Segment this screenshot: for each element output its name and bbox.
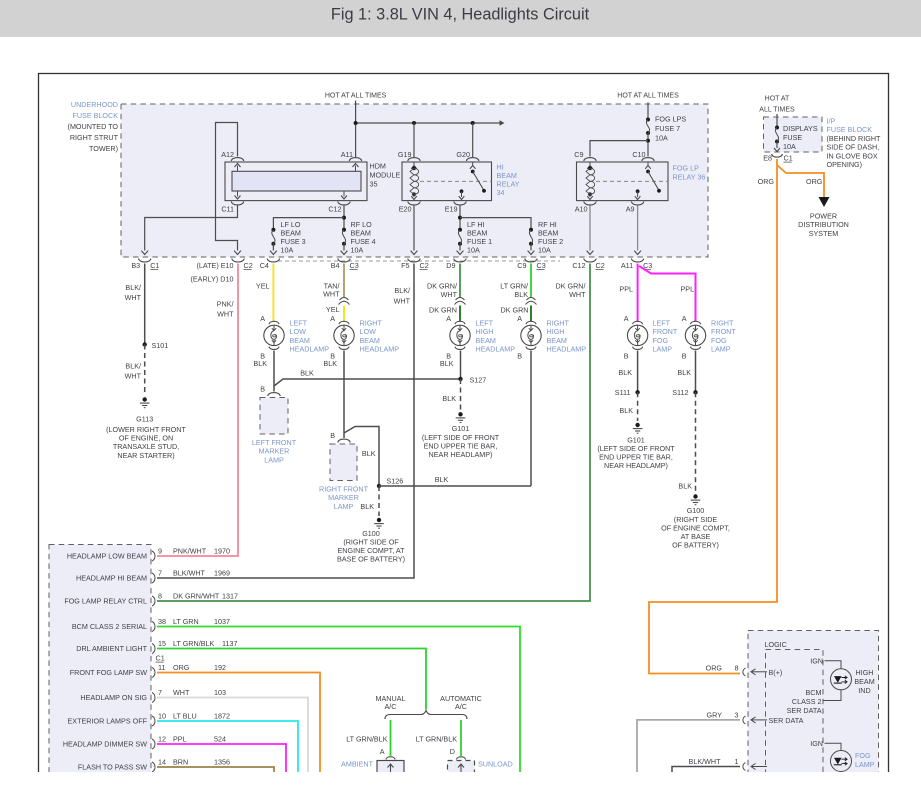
wire LT GRN/BLK to sunload sensor <box>460 720 462 756</box>
svg-text:ORG: ORG <box>758 177 775 186</box>
svg-text:GRY: GRY <box>707 711 723 720</box>
wire PNK/WHT from E10/C2 to BCM pin 9 <box>157 264 238 557</box>
logic inner box <box>766 650 824 791</box>
svg-text:HOT AT ALL TIMES: HOT AT ALL TIMES <box>325 93 387 100</box>
svg-text:11: 11 <box>158 663 165 672</box>
wire: A10 to C12/C2 <box>589 206 591 251</box>
svg-text:ORG: ORG <box>806 177 823 186</box>
connector at x=590 <box>584 259 596 262</box>
ground G101 (left headlamp) <box>458 412 462 416</box>
svg-text:BLK: BLK <box>253 359 267 368</box>
svg-text:B: B <box>682 352 687 361</box>
svg-text:RIGHT: RIGHT <box>547 319 570 328</box>
svg-text:DK GRN: DK GRN <box>501 306 529 315</box>
connector at x=273.4 <box>267 259 279 262</box>
harness dashed line <box>278 260 560 262</box>
svg-text:A: A <box>260 314 265 323</box>
svg-text:PNK/: PNK/ <box>217 300 234 309</box>
svg-text:FUSE 7: FUSE 7 <box>655 124 680 133</box>
underhood fuse block box <box>121 104 708 257</box>
svg-text:ALL TIMES: ALL TIMES <box>759 107 795 114</box>
svg-text:BLK/WHT: BLK/WHT <box>689 757 722 766</box>
svg-text:10A: 10A <box>655 134 668 143</box>
svg-text:IGN: IGN <box>810 657 823 666</box>
svg-text:FOG LP: FOG LP <box>673 164 700 173</box>
splice S127 <box>458 377 462 381</box>
svg-text:OPENING): OPENING) <box>827 160 863 169</box>
ground G100 (fog) <box>693 494 697 498</box>
connector at x=414 <box>408 259 420 262</box>
wire DK GRN/WHT from C12/C2 to BCM pin 8 <box>157 264 590 602</box>
relay 34 switch <box>472 162 474 166</box>
svg-text:LAMP: LAMP <box>264 455 284 464</box>
svg-text:BLK: BLK <box>619 406 633 415</box>
svg-text:IN GLOVE BOX: IN GLOVE BOX <box>827 151 878 160</box>
svg-text:BLK: BLK <box>323 359 337 368</box>
wire YEL to right low beam lamp <box>343 306 345 322</box>
svg-text:RIGHT: RIGHT <box>360 319 383 328</box>
svg-text:(LATE) E10: (LATE) E10 <box>196 261 233 270</box>
svg-text:A: A <box>446 314 451 323</box>
svg-text:UNDERHOOD: UNDERHOOD <box>71 100 118 109</box>
svg-text:DK GRN: DK GRN <box>429 306 457 315</box>
svg-text:G100: G100 <box>687 506 705 515</box>
svg-text:WHT: WHT <box>394 297 411 306</box>
svg-text:RELAY 36: RELAY 36 <box>673 173 706 182</box>
svg-text:IND: IND <box>858 686 870 695</box>
wire DK GRN to left high beam lamp <box>459 306 461 322</box>
wire BLK S126 bus to right high beam B <box>379 485 531 487</box>
svg-text:C3: C3 <box>537 261 546 270</box>
svg-text:A: A <box>380 747 385 756</box>
svg-text:S127: S127 <box>470 376 487 385</box>
svg-text:1037: 1037 <box>214 617 230 626</box>
svg-text:LEFT: LEFT <box>653 319 671 328</box>
wire BLK/WHT 1 <box>672 767 740 773</box>
svg-text:LEFT: LEFT <box>476 319 494 328</box>
connector at x=460 <box>454 259 466 262</box>
svg-text:14: 14 <box>158 758 166 767</box>
svg-text:LT GRN/BLK: LT GRN/BLK <box>173 639 214 648</box>
svg-text:WHT: WHT <box>173 688 190 697</box>
svg-text:OF BATTERY): OF BATTERY) <box>672 541 719 550</box>
svg-text:BLK: BLK <box>435 475 449 484</box>
svg-text:1356: 1356 <box>214 758 230 767</box>
wire BLK left low beam B to marker lamp <box>273 351 275 392</box>
svg-text:BEAM: BEAM <box>360 336 380 345</box>
splice S111 <box>635 390 639 394</box>
wire feed <box>776 114 778 128</box>
svg-text:524: 524 <box>214 735 226 744</box>
svg-text:PPL: PPL <box>619 285 633 294</box>
ground G100 (marker) <box>377 518 381 522</box>
HDM module 35 <box>225 162 367 201</box>
wire: E20 to F5 <box>413 206 415 251</box>
svg-text:BEAM: BEAM <box>290 336 310 345</box>
connector at x=637.6 <box>631 259 643 262</box>
svg-text:35: 35 <box>370 180 378 189</box>
svg-text:B: B <box>260 385 265 394</box>
svg-text:WHT: WHT <box>441 290 458 299</box>
svg-text:BEAM: BEAM <box>476 336 496 345</box>
svg-text:8: 8 <box>158 592 162 601</box>
wire YEL from C4 to left low beam lamp <box>272 264 274 322</box>
svg-text:S111: S111 <box>615 388 631 397</box>
logic outer box <box>748 631 879 791</box>
svg-text:C1: C1 <box>156 654 165 663</box>
svg-text:ORG: ORG <box>706 664 723 673</box>
title bar <box>0 0 921 37</box>
wire DK GRN to right high beam lamp <box>530 306 532 322</box>
svg-text:HEADLAMP: HEADLAMP <box>360 345 400 354</box>
svg-text:POWER: POWER <box>810 212 837 221</box>
wire GRY <box>637 720 740 772</box>
wire: feed to A11 and bus <box>355 101 357 158</box>
svg-text:(EARLY) D10: (EARLY) D10 <box>190 275 233 284</box>
svg-text:SIDE OF DASH,: SIDE OF DASH, <box>827 143 880 152</box>
svg-text:A: A <box>624 314 629 323</box>
svg-text:10A: 10A <box>467 246 480 255</box>
wire: bus drop to G19 <box>413 123 415 157</box>
svg-text:LOGIC: LOGIC <box>765 640 787 649</box>
wire DK GRN/WHT from D9 <box>459 264 461 298</box>
connector at x=144.7 <box>139 259 151 262</box>
svg-text:BLK: BLK <box>677 368 691 377</box>
svg-text:C9: C9 <box>517 261 526 270</box>
wire LT GRN/BLK 1137 <box>157 649 426 710</box>
wire BRN 1356 <box>157 767 274 772</box>
svg-text:C2: C2 <box>596 261 605 270</box>
svg-text:A11: A11 <box>341 150 353 159</box>
relay 36 coil <box>589 162 591 166</box>
svg-text:SER DATA: SER DATA <box>787 706 822 715</box>
svg-text:LAMP: LAMP <box>855 760 875 769</box>
svg-text:C12: C12 <box>572 261 585 270</box>
svg-text:1872: 1872 <box>214 712 230 721</box>
wire BLK/WHT from F5/C2 to BCM pin 7 <box>157 264 414 579</box>
svg-text:BLK: BLK <box>514 290 528 299</box>
svg-text:103: 103 <box>214 688 226 697</box>
svg-text:ORG: ORG <box>173 663 190 672</box>
svg-text:HIGH: HIGH <box>476 327 494 336</box>
wire PPL 524 <box>157 744 286 772</box>
svg-text:1137: 1137 <box>222 639 237 648</box>
svg-text:YEL: YEL <box>256 282 270 291</box>
svg-text:BRN: BRN <box>173 758 188 767</box>
wire: A9 to A11/C3 <box>637 206 639 251</box>
svg-text:FUSE BLOCK: FUSE BLOCK <box>72 111 118 120</box>
svg-text:LOW: LOW <box>360 327 377 336</box>
svg-text:DRL AMBIENT LIGHT: DRL AMBIENT LIGHT <box>76 644 147 653</box>
svg-text:FUSE BLOCK: FUSE BLOCK <box>827 125 873 134</box>
svg-text:S126: S126 <box>387 477 404 486</box>
lamp: left front marker lamp <box>268 393 280 396</box>
svg-text:HEADLAMP: HEADLAMP <box>290 345 330 354</box>
lamp: right front marker lamp <box>338 439 350 442</box>
svg-text:FOG: FOG <box>653 336 669 345</box>
svg-text:A: A <box>682 314 687 323</box>
relay 36 switch <box>647 162 649 166</box>
svg-text:LAMP: LAMP <box>653 345 673 354</box>
svg-text:38: 38 <box>158 617 166 626</box>
BCM box <box>49 545 151 785</box>
svg-text:A11: A11 <box>621 261 633 270</box>
wire BLK right high beam B to S126 bus <box>530 351 532 487</box>
svg-text:BLK/: BLK/ <box>125 362 141 371</box>
svg-text:C2: C2 <box>244 261 253 270</box>
fuse: FOG LPS FUSE 7 10A <box>646 118 650 122</box>
svg-text:OF ENGINE, ON: OF ENGINE, ON <box>119 434 173 443</box>
wire: branch to C9 <box>590 141 648 157</box>
svg-text:C9: C9 <box>574 150 583 159</box>
wire to ground G100 <box>378 486 380 516</box>
svg-text:C12: C12 <box>328 205 341 214</box>
svg-text:S112: S112 <box>672 388 688 397</box>
svg-text:BCM CLASS 2 SERIAL: BCM CLASS 2 SERIAL <box>72 622 147 631</box>
svg-text:BLK: BLK <box>360 502 374 511</box>
svg-text:SER DATA: SER DATA <box>769 716 804 725</box>
splice S112 <box>693 390 697 394</box>
svg-text:RIGHT FRONT: RIGHT FRONT <box>319 485 369 494</box>
svg-text:HOT AT: HOT AT <box>765 96 790 103</box>
svg-text:SYSTEM: SYSTEM <box>809 229 839 238</box>
svg-text:E19: E19 <box>445 205 458 214</box>
svg-text:YEL: YEL <box>326 305 340 314</box>
svg-text:LEFT: LEFT <box>290 319 308 328</box>
relay 34 coil <box>413 162 415 166</box>
svg-text:BEAM: BEAM <box>547 336 567 345</box>
wire TAN/WHT from B4/C3 <box>343 264 345 298</box>
svg-text:BLK: BLK <box>300 369 314 378</box>
svg-text:SUNLOAD: SUNLOAD <box>478 760 513 769</box>
svg-text:10A: 10A <box>281 246 294 255</box>
svg-text:D9: D9 <box>446 261 455 270</box>
wire WHT 103 <box>157 698 308 773</box>
svg-text:C4: C4 <box>260 261 269 270</box>
svg-text:FLASH TO PASS SW: FLASH TO PASS SW <box>78 763 147 772</box>
wire LT GRN 1037 <box>157 627 520 773</box>
svg-text:BLK: BLK <box>440 359 454 368</box>
wire LT BLU 1872 <box>157 721 298 772</box>
svg-text:A/C: A/C <box>455 702 467 711</box>
svg-text:10A: 10A <box>351 246 364 255</box>
svg-text:WHT: WHT <box>217 310 234 319</box>
svg-text:B3: B3 <box>131 261 140 270</box>
svg-text:WHT: WHT <box>125 372 142 381</box>
svg-text:HOT AT ALL TIMES: HOT AT ALL TIMES <box>617 93 679 100</box>
svg-text:HDM: HDM <box>370 162 386 171</box>
svg-text:FOG LPS: FOG LPS <box>655 115 686 124</box>
svg-text:MARKER: MARKER <box>328 493 359 502</box>
connector E8 / C1 <box>772 154 783 157</box>
wire BLK right low beam B to right marker lamp <box>343 351 345 439</box>
svg-text:G19: G19 <box>398 150 412 159</box>
svg-text:FUSE: FUSE <box>783 133 802 142</box>
svg-text:AMBIENT: AMBIENT <box>341 760 374 769</box>
pin B(+) <box>743 668 746 676</box>
svg-text:10A: 10A <box>783 142 796 151</box>
svg-text:C10: C10 <box>632 150 645 159</box>
svg-text:BLK/: BLK/ <box>394 286 410 295</box>
wire: bus drop to G20 <box>472 123 474 157</box>
I/P fuse block box <box>764 117 823 152</box>
svg-text:10: 10 <box>158 712 166 721</box>
svg-text:HEADLAMP: HEADLAMP <box>476 345 516 354</box>
wire: E19 junction <box>459 206 461 230</box>
wire: C11 to B3/C1 <box>145 206 238 251</box>
svg-text:C11: C11 <box>221 205 234 214</box>
fuse: RF LO BEAM FUSE 4 10A <box>342 228 346 232</box>
svg-text:FRONT FOG LAMP SW: FRONT FOG LAMP SW <box>70 668 147 677</box>
wire: C12 junction <box>343 206 345 230</box>
svg-text:RIGHT: RIGHT <box>711 319 734 328</box>
svg-text:DK GRN/WHT: DK GRN/WHT <box>173 592 220 601</box>
wire: hot feed to fog lps fuse <box>647 103 649 120</box>
pin BLK/WHT 1 <box>743 763 746 771</box>
relay: FOG LP RELAY 36 <box>577 162 669 201</box>
svg-text:PPL: PPL <box>173 735 187 744</box>
svg-text:G20: G20 <box>456 150 470 159</box>
svg-text:B: B <box>517 352 522 361</box>
svg-text:TOWER): TOWER) <box>89 144 118 153</box>
svg-text:A: A <box>517 314 522 323</box>
ground G113 <box>143 397 147 401</box>
wire ORG 192 <box>157 673 320 773</box>
svg-text:CLASS 2: CLASS 2 <box>792 697 822 706</box>
svg-text:E8: E8 <box>763 154 772 163</box>
svg-text:A12: A12 <box>221 150 234 159</box>
svg-text:(MOUNTED TO: (MOUNTED TO <box>68 122 119 131</box>
connector at x=531 <box>525 259 537 262</box>
splice S126 <box>377 484 381 488</box>
fuse: DISPLAYS FUSE 10A <box>775 126 779 130</box>
svg-text:FRONT: FRONT <box>711 327 736 336</box>
svg-text:RIGHT STRUT: RIGHT STRUT <box>70 133 119 142</box>
svg-text:B4: B4 <box>331 261 340 270</box>
svg-text:9: 9 <box>158 547 162 556</box>
wire PPL from A11/C3 to both fog lamps <box>637 264 639 322</box>
svg-text:A10: A10 <box>575 205 588 214</box>
svg-text:D: D <box>450 747 455 756</box>
svg-text:BCM: BCM <box>806 688 822 697</box>
svg-text:1970: 1970 <box>214 547 230 556</box>
svg-text:LT GRN/BLK: LT GRN/BLK <box>416 735 457 744</box>
svg-text:PPL: PPL <box>681 285 695 294</box>
svg-text:BLK/: BLK/ <box>125 283 141 292</box>
wire BLK left high beam B to S127 <box>460 351 462 380</box>
svg-text:B: B <box>624 352 629 361</box>
svg-text:WHT: WHT <box>125 293 142 302</box>
svg-text:(BEHIND RIGHT: (BEHIND RIGHT <box>827 134 882 143</box>
svg-text:BLK/WHT: BLK/WHT <box>173 569 206 578</box>
svg-text:HEADLAMP: HEADLAMP <box>547 345 587 354</box>
bottom clip <box>0 772 921 804</box>
fuse: RF HI BEAM FUSE 2 10A <box>529 228 533 232</box>
branch diagonal to S126 drop <box>344 427 379 487</box>
svg-text:12: 12 <box>158 735 166 744</box>
svg-text:LT BLU: LT BLU <box>173 712 197 721</box>
svg-text:I/P: I/P <box>827 117 836 126</box>
svg-text:S101: S101 <box>152 341 169 350</box>
inline connector <box>455 301 466 304</box>
svg-text:BLK: BLK <box>618 368 632 377</box>
svg-text:MODULE: MODULE <box>370 171 401 180</box>
wire LT GRN/BLK from C9/C3 <box>530 264 532 298</box>
svg-text:192: 192 <box>214 663 226 672</box>
svg-text:10A: 10A <box>538 246 551 255</box>
svg-text:1317: 1317 <box>222 592 238 601</box>
svg-text:MARKER: MARKER <box>259 447 290 456</box>
svg-text:BEAM: BEAM <box>854 677 874 686</box>
svg-text:WHT: WHT <box>323 290 340 299</box>
svg-text:F5: F5 <box>401 261 409 270</box>
svg-text:G101: G101 <box>452 424 470 433</box>
svg-text:C1: C1 <box>784 154 793 163</box>
svg-text:3: 3 <box>735 711 739 720</box>
svg-text:15: 15 <box>158 639 166 648</box>
svg-text:HEADLAMP HI BEAM: HEADLAMP HI BEAM <box>76 574 147 583</box>
svg-text:B(+): B(+) <box>769 668 783 677</box>
svg-text:E20: E20 <box>399 205 412 214</box>
wire: branch to LF LO fuse <box>273 218 344 230</box>
svg-text:1969: 1969 <box>214 569 230 578</box>
wire: branch to RF HI fuse <box>460 218 531 230</box>
wire ORG branch to power distribution <box>777 165 824 197</box>
svg-text:NEAR STARTER): NEAR STARTER) <box>117 451 174 460</box>
svg-text:G113: G113 <box>136 415 153 424</box>
svg-text:DISPLAYS: DISPLAYS <box>783 124 818 133</box>
svg-text:FOG: FOG <box>711 336 727 345</box>
svg-text:PNK/WHT: PNK/WHT <box>173 547 207 556</box>
svg-text:HEADLAMP DIMMER SW: HEADLAMP DIMMER SW <box>63 740 147 749</box>
svg-text:Fig 1: 3.8L VIN 4, Headlights: Fig 1: 3.8L VIN 4, Headlights Circuit <box>331 6 590 24</box>
wire LT GRN/BLK to ambient sensor <box>390 720 392 756</box>
svg-text:7: 7 <box>158 688 162 697</box>
splice S101 <box>143 342 147 346</box>
svg-text:C2: C2 <box>420 261 429 270</box>
wire: E10 feed loop to A12 <box>216 123 238 251</box>
svg-text:C3: C3 <box>350 261 359 270</box>
fuse: LF HI BEAM FUSE 1 10A <box>458 228 462 232</box>
svg-text:FRONT: FRONT <box>653 327 678 336</box>
svg-text:LEFT FRONT: LEFT FRONT <box>252 438 297 447</box>
svg-text:BLK: BLK <box>678 482 692 491</box>
svg-text:8: 8 <box>735 664 739 673</box>
svg-text:34: 34 <box>497 188 505 197</box>
svg-text:TRANSAXLE STUD,: TRANSAXLE STUD, <box>113 442 179 451</box>
svg-text:BLK: BLK <box>442 394 456 403</box>
svg-text:NEAR HEADLAMP): NEAR HEADLAMP) <box>429 450 493 459</box>
svg-text:BLK: BLK <box>362 449 376 458</box>
svg-text:HEADLAMP ON SIG: HEADLAMP ON SIG <box>80 693 147 702</box>
svg-text:BASE OF BATTERY): BASE OF BATTERY) <box>337 555 405 564</box>
svg-text:HIGH: HIGH <box>856 668 874 677</box>
inline connector <box>339 301 350 304</box>
svg-text:LT GRN: LT GRN <box>173 617 199 626</box>
svg-text:NEAR HEADLAMP): NEAR HEADLAMP) <box>604 461 668 470</box>
svg-text:EXTERIOR LAMPS OFF: EXTERIOR LAMPS OFF <box>68 717 148 726</box>
svg-text:DISTRIBUTION: DISTRIBUTION <box>798 220 849 229</box>
wire ORG long run to logic box <box>649 159 777 674</box>
svg-text:A9: A9 <box>626 205 635 214</box>
branch diagonal to BLK bus <box>274 379 461 386</box>
svg-text:(LOWER RIGHT FRONT: (LOWER RIGHT FRONT <box>106 425 186 434</box>
svg-text:A/C: A/C <box>385 702 397 711</box>
brace manual/automatic A/C <box>385 711 467 720</box>
svg-text:1: 1 <box>735 757 739 766</box>
connector at x=238 <box>232 259 244 262</box>
svg-text:7: 7 <box>158 569 162 578</box>
